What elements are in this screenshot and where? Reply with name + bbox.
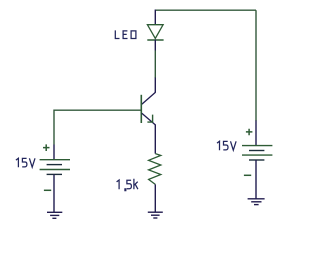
label 1.5k xyxy=(117,179,138,191)
battery V2 plate 2 short xyxy=(249,150,264,152)
battery V2 minus sign xyxy=(244,174,251,176)
battery V2 plate 4 short xyxy=(249,159,264,161)
battery V1 plate 4 short xyxy=(47,173,62,175)
wire: V1 bottom pin to ground xyxy=(53,174,55,212)
ground GND2 xyxy=(148,212,163,218)
battery V2 plate 1 long xyxy=(242,145,272,147)
wire: Q1 collector pin xyxy=(154,78,156,93)
LED D1 triangle xyxy=(147,25,163,39)
wire: left vertical from base corner down xyxy=(53,110,55,145)
battery V2 plate 3 long xyxy=(242,154,272,156)
battery V1 plate 2 short xyxy=(47,164,62,166)
transistor Q1 emitter arrow xyxy=(147,115,152,123)
battery V2 plus sign xyxy=(246,129,253,136)
battery V1 plus sign xyxy=(43,144,50,151)
battery V1 plate 3 long xyxy=(40,169,70,171)
wire: top horizontal net from LED anode to V2 xyxy=(155,9,256,11)
resistor R1 zigzag xyxy=(149,154,161,185)
ground GND3 xyxy=(248,199,265,205)
label 15V left xyxy=(16,158,35,167)
wire: right vertical drop to V2 xyxy=(255,10,257,121)
wire: Q1 emitter pin to resistor xyxy=(154,125,156,154)
wire: V1 top pin stub xyxy=(53,145,55,160)
ground GND1 xyxy=(47,212,62,218)
battery V1 plate 1 long xyxy=(40,159,70,161)
battery V1 minus sign xyxy=(44,189,51,191)
wire: LED top pin stub xyxy=(154,10,156,25)
transistor Q1 emitter diagonal xyxy=(142,113,156,125)
LED D1 cathode bar xyxy=(147,39,163,41)
label LED xyxy=(115,30,136,38)
wire: V2 top pin stub xyxy=(255,121,257,146)
transistor Q1 collector diagonal xyxy=(142,92,156,104)
label 15V right xyxy=(217,141,236,150)
wire: resistor bottom to ground xyxy=(154,184,156,211)
wire: LED cathode to Q1 collector xyxy=(154,51,156,79)
wire: base wire to V1 xyxy=(54,109,141,111)
wire: LED bottom pin stub xyxy=(154,40,156,51)
wire: V2 bottom pin to ground xyxy=(255,160,257,199)
transistor Q1 base bar xyxy=(140,95,142,123)
